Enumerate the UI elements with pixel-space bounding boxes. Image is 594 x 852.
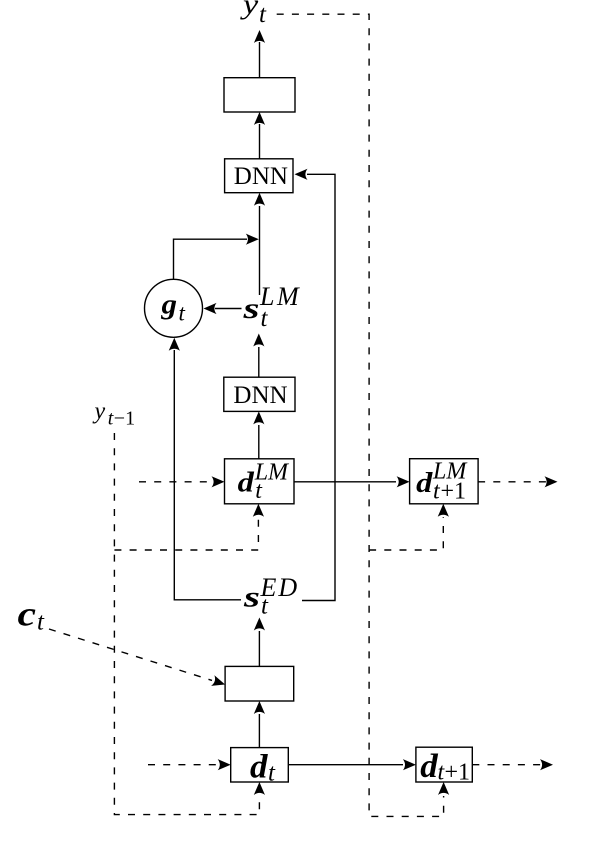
- wire s_t^ED to g_t (left bracket): [169, 338, 241, 600]
- wire dashed c_t to attention: [49, 629, 227, 690]
- wire dashed y_{t-1} branch to d_t^LM: [114, 504, 264, 550]
- svg-text:+1: +1: [445, 760, 471, 786]
- svg-text:DNN: DNN: [233, 382, 287, 409]
- wire d_t^LM to d_{t+1}^LM: [294, 476, 410, 487]
- svg-text:t: t: [261, 593, 269, 620]
- svg-text:d: d: [420, 748, 439, 785]
- box d_t^LM: [225, 459, 295, 504]
- svg-text:y: y: [93, 399, 106, 425]
- svg-text:t: t: [179, 301, 186, 326]
- wire dashed out of d_{t+1}^LM: [478, 476, 557, 487]
- svg-text:t: t: [259, 1, 267, 28]
- gate g_t: [145, 279, 203, 337]
- box d_t: [231, 748, 289, 787]
- wire attention to s_t^ED: [254, 618, 265, 667]
- node y_t: [239, 0, 267, 28]
- box d_{t+1}^LM: [410, 458, 479, 504]
- wire softmax to y_t: [254, 30, 265, 78]
- wire dashed y_t branch to d_{t+1}^LM: [369, 504, 449, 550]
- box DNN U1: [225, 159, 293, 193]
- wire g_t output to junction: [174, 234, 259, 280]
- wire dashed into d_t^LM from left: [139, 476, 225, 487]
- wire DNN2 to s_t^LM: [253, 334, 264, 378]
- wire d_t to d_{t+1}: [288, 759, 416, 770]
- svg-text:g: g: [160, 289, 177, 321]
- svg-text:c: c: [18, 595, 37, 634]
- svg-text:d: d: [416, 467, 433, 499]
- wire s_t^ED to DNN1 (right bracket): [295, 169, 336, 601]
- box d_{t+1}: [416, 747, 472, 785]
- wire dashed out of d_{t+1}: [472, 759, 553, 770]
- node s_t^ED: [243, 573, 300, 620]
- wire DNN1 to softmax: [254, 112, 265, 159]
- svg-text:d: d: [238, 467, 255, 499]
- svg-text:+1: +1: [441, 479, 467, 505]
- node c_t: [18, 595, 46, 636]
- wire d_t to attention: [254, 701, 265, 748]
- wire s_t^LM to g_t: [204, 303, 242, 314]
- svg-text:s: s: [243, 581, 260, 614]
- box attention (empty): [225, 666, 294, 701]
- node y_{t-1}: [93, 399, 136, 430]
- wire dashed y_{t-1} feedback: [114, 433, 265, 815]
- svg-text:DNN: DNN: [234, 163, 288, 190]
- svg-text:t: t: [261, 305, 269, 332]
- wire dashed into d_t from left: [148, 759, 231, 770]
- svg-text:t: t: [37, 609, 45, 636]
- wire s_t^LM to DNN1: [254, 193, 265, 295]
- svg-text:s: s: [242, 292, 259, 325]
- svg-text:t: t: [268, 760, 276, 787]
- svg-text:−1: −1: [114, 408, 135, 430]
- node s_t^LM: [242, 282, 301, 332]
- svg-text:y: y: [239, 0, 259, 21]
- box softmax (empty): [224, 78, 295, 112]
- wire d_t^LM to DNN2: [253, 411, 264, 458]
- box DNN U2: [224, 377, 295, 411]
- wire dashed y_t feedback: [277, 14, 450, 816]
- svg-text:d: d: [250, 748, 269, 785]
